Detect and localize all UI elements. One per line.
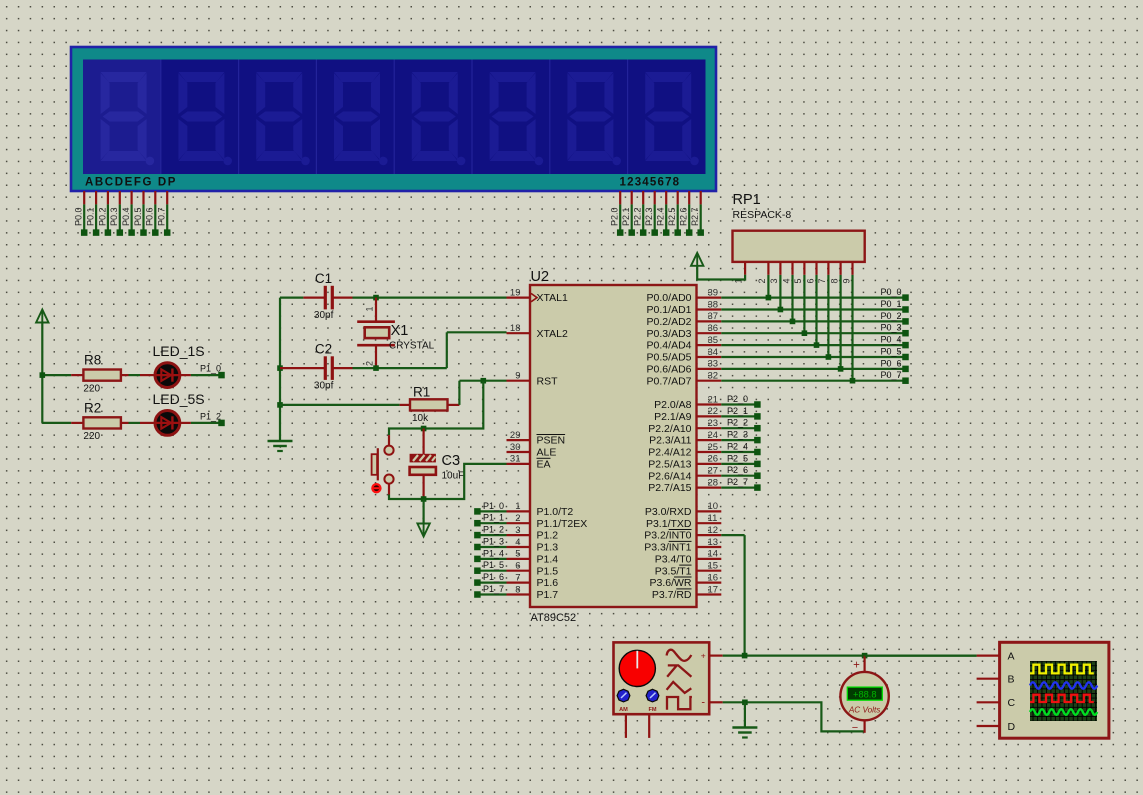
svg-text:P0.6: P0.6 <box>145 207 155 226</box>
svg-text:C3: C3 <box>442 453 461 469</box>
terminal P1_4 <box>474 548 506 562</box>
wire RP1 pin 2 to P0_0 <box>766 275 772 301</box>
wire RP1 pin 9 to P0_7 <box>850 275 856 384</box>
display pin wire P2.4 <box>656 191 670 236</box>
svg-text:P1_3: P1_3 <box>483 536 504 546</box>
svg-text:P2_5: P2_5 <box>727 453 748 463</box>
U2 XTAL1 clock input arrow <box>531 293 537 301</box>
svg-text:33: 33 <box>708 359 719 370</box>
svg-text:+: + <box>853 660 860 672</box>
wire LED_1S to terminal P1_0 <box>191 364 225 379</box>
junction XTAL1 node <box>373 295 379 301</box>
terminal P1_6 <box>474 572 506 586</box>
RP1 pin 7 stub <box>817 262 828 284</box>
svg-text:R1: R1 <box>413 384 430 399</box>
terminal P2_7 <box>721 477 760 491</box>
svg-text:C2: C2 <box>315 342 332 357</box>
svg-text:RST: RST <box>537 375 559 387</box>
svg-text:30pf: 30pf <box>314 381 334 392</box>
U2 pin 5 P1.4 <box>507 549 559 566</box>
RP1 pin 6 stub <box>805 262 816 284</box>
display pin wire P2.5 <box>667 191 681 236</box>
svg-text:35: 35 <box>708 335 719 346</box>
svg-text:7: 7 <box>515 572 520 583</box>
svg-text:6: 6 <box>805 278 815 283</box>
LED LED_1S <box>140 343 205 387</box>
svg-text:3: 3 <box>769 278 779 283</box>
8-digit 7-segment display module <box>71 47 716 191</box>
U2 pin 15 P3.5/T1 <box>655 561 722 578</box>
svg-text:19: 19 <box>510 287 521 298</box>
U2 pin 9 RST <box>507 371 559 388</box>
svg-text:220: 220 <box>83 383 100 394</box>
svg-text:P0_4: P0_4 <box>880 335 901 345</box>
svg-text:31: 31 <box>510 454 521 465</box>
svg-text:9: 9 <box>515 371 520 382</box>
svg-text:P1_6: P1_6 <box>483 572 504 582</box>
svg-text:P1.5: P1.5 <box>537 565 559 577</box>
svg-text:P1_0: P1_0 <box>200 364 221 374</box>
wire P0_0 net <box>721 287 908 301</box>
AC voltmeter instrument <box>840 656 888 734</box>
svg-text:P0_2: P0_2 <box>880 311 901 321</box>
U2 pin 26 P2.5/A13 <box>648 454 721 471</box>
svg-text:P0.4: P0.4 <box>121 207 131 226</box>
svg-text:14: 14 <box>708 549 719 560</box>
svg-text:10uF: 10uF <box>442 471 465 482</box>
wire voltmeter node to scope channel A <box>865 654 977 656</box>
wire LED power rail <box>42 323 71 423</box>
svg-text:9: 9 <box>841 278 851 283</box>
svg-text:P0_5: P0_5 <box>880 346 901 356</box>
wire button and C3 bottom to EA <box>389 464 507 499</box>
svg-text:P2_6: P2_6 <box>727 465 748 475</box>
wire RP1 pin 8 to P0_6 <box>838 275 844 372</box>
svg-text:P1_2: P1_2 <box>483 525 504 535</box>
svg-text:30: 30 <box>510 442 521 453</box>
svg-text:X1: X1 <box>391 323 409 339</box>
svg-text:P2.2/A10: P2.2/A10 <box>648 423 691 435</box>
generator AM knob <box>617 689 630 713</box>
svg-text:17: 17 <box>708 584 719 595</box>
junction C3 top <box>421 426 427 432</box>
svg-text:P2.4/A12: P2.4/A12 <box>648 447 691 459</box>
display pin wire P0.7 <box>157 191 171 236</box>
wire C2 to XTAL2 <box>353 332 507 368</box>
oscilloscope channel A pin <box>977 650 1015 662</box>
svg-text:4: 4 <box>515 537 520 548</box>
svg-text:P2_1: P2_1 <box>727 406 748 416</box>
svg-text:P2.5: P2.5 <box>667 207 677 226</box>
wire RP1 pin 5 to P0_3 <box>802 275 808 336</box>
generator output minus pin <box>701 697 722 709</box>
crystal X1 <box>357 298 434 369</box>
svg-text:AM: AM <box>619 707 628 713</box>
display pin wire P2.3 <box>644 191 658 236</box>
wire RP1 pin1 to power <box>697 266 745 280</box>
svg-text:R8: R8 <box>84 353 101 368</box>
svg-text:P0.6/AD6: P0.6/AD6 <box>647 364 692 376</box>
junction INT0 node <box>742 653 748 659</box>
svg-text:P1.3: P1.3 <box>537 542 559 554</box>
svg-text:11: 11 <box>708 513 718 524</box>
capacitor C3 10uF electrolytic <box>410 429 465 500</box>
U2 pin 12 P3.2/INT0 <box>644 525 721 542</box>
svg-text:29: 29 <box>510 430 521 441</box>
svg-text:RESPACK-8: RESPACK-8 <box>733 209 792 221</box>
svg-text:LED_5S: LED_5S <box>153 391 205 407</box>
U2 pin 10 P3.0/RXD <box>645 501 721 518</box>
svg-text:P3.2/INT0: P3.2/INT0 <box>644 530 691 542</box>
svg-text:13: 13 <box>708 537 719 548</box>
svg-text:A: A <box>1008 650 1015 662</box>
svg-text:10k: 10k <box>412 413 429 424</box>
U2 pin 39 P0.0/AD0 <box>647 287 722 304</box>
svg-text:XTAL2: XTAL2 <box>537 328 568 340</box>
display pin wire P0.4 <box>121 191 135 236</box>
svg-text:1: 1 <box>364 306 374 311</box>
wire to ground arrow <box>423 499 425 524</box>
capacitor C2 30pf <box>280 342 353 392</box>
terminal P2_6 <box>721 465 760 479</box>
RP1 pin 4 stub <box>781 262 792 284</box>
U2 pin 29 PSEN <box>507 430 566 447</box>
U2 pin 13 P3.3/INT1 <box>644 537 721 554</box>
power symbol VCC at RP1 <box>691 253 703 266</box>
svg-text:P0.4/AD4: P0.4/AD4 <box>647 340 692 352</box>
svg-text:P0.0: P0.0 <box>74 207 84 226</box>
wire P0_6 net <box>721 358 908 372</box>
svg-text:32: 32 <box>708 371 719 382</box>
svg-text:P2.7: P2.7 <box>690 207 700 226</box>
U2 pin 33 P0.6/AD6 <box>647 359 722 376</box>
display digit figures 8 with decimal points <box>101 72 155 165</box>
svg-text:P1_0: P1_0 <box>483 501 504 511</box>
svg-text:21: 21 <box>708 394 719 405</box>
display pin wire P2.2 <box>633 191 647 236</box>
svg-text:R2: R2 <box>84 400 101 415</box>
svg-text:1: 1 <box>515 501 520 512</box>
svg-text:P0_6: P0_6 <box>880 358 901 368</box>
U2 pin 27 P2.6/A14 <box>648 466 721 483</box>
terminal P1_5 <box>474 560 506 574</box>
display pin wire P0.2 <box>97 191 111 236</box>
svg-text:26: 26 <box>708 454 719 465</box>
U2 pin 30 ALE <box>507 442 557 459</box>
svg-text:P0.1/AD1: P0.1/AD1 <box>647 304 692 316</box>
svg-text:P0.3: P0.3 <box>109 207 119 226</box>
svg-text:−: − <box>852 722 858 734</box>
svg-text:P3.5/T1: P3.5/T1 <box>655 565 692 577</box>
signal generator instrument <box>614 642 710 714</box>
wire generator minus net <box>723 702 864 731</box>
svg-text:7: 7 <box>817 278 827 283</box>
svg-text:5: 5 <box>515 549 520 560</box>
svg-text:P1.4: P1.4 <box>537 554 559 566</box>
U2 pin 7 P1.6 <box>507 572 559 589</box>
svg-text:P1.0/T2: P1.0/T2 <box>537 506 574 518</box>
svg-text:P3.1/TXD: P3.1/TXD <box>646 518 692 530</box>
oscilloscope screen with waveforms <box>1030 661 1097 721</box>
svg-text:P2_4: P2_4 <box>727 441 748 451</box>
svg-text:P1_7: P1_7 <box>483 584 504 594</box>
oscilloscope channel C pin <box>977 697 1016 709</box>
display pin wire P2.1 <box>621 191 635 236</box>
svg-text:18: 18 <box>510 323 521 334</box>
svg-text:8: 8 <box>515 584 520 595</box>
wire C1 left to ground rail <box>280 298 303 441</box>
display pin wire P2.0 <box>610 191 624 236</box>
display pin wire P0.6 <box>145 191 159 236</box>
svg-text:B: B <box>1008 674 1015 686</box>
wire P3.2/INT0 to generator output <box>721 535 744 656</box>
svg-text:EA: EA <box>537 459 551 471</box>
op-amp U2 body AT89C52 microcontroller <box>530 269 697 624</box>
generator waveform icons <box>667 650 692 710</box>
resistor R2 220 <box>71 400 128 442</box>
junction C3 bottom <box>421 496 427 502</box>
junction crystal pin2 <box>373 365 379 371</box>
LED LED_5S <box>140 391 205 435</box>
svg-text:36: 36 <box>708 323 719 334</box>
svg-text:25: 25 <box>708 442 719 453</box>
terminal P1_7 <box>474 584 506 598</box>
svg-text:P0_3: P0_3 <box>880 323 901 333</box>
RP1 pin 5 stub <box>793 262 804 284</box>
svg-text:RP1: RP1 <box>733 192 761 208</box>
display pin wire P0.3 <box>109 191 123 236</box>
svg-text:P3.3/INT1: P3.3/INT1 <box>644 542 691 554</box>
svg-text:39: 39 <box>708 287 719 298</box>
wire P0_4 net <box>721 335 908 349</box>
oscilloscope instrument <box>1000 642 1109 738</box>
svg-text:220: 220 <box>83 431 100 442</box>
U2 pin 35 P0.4/AD4 <box>647 335 722 352</box>
svg-text:P2_3: P2_3 <box>727 430 748 440</box>
U2 pin 22 P2.1/A9 <box>654 406 721 423</box>
RP1 pin 1 stub <box>734 262 746 284</box>
svg-text:+88.8: +88.8 <box>853 689 877 699</box>
wire P0_1 net <box>721 299 908 313</box>
display pin wire P0.1 <box>86 191 100 236</box>
svg-text:4: 4 <box>781 278 791 283</box>
svg-text:P0_0: P0_0 <box>880 287 901 297</box>
junction R1 rail <box>277 402 283 408</box>
U2 pin 28 P2.7/A15 <box>648 477 721 494</box>
U2 pin 18 XTAL2 <box>507 323 568 340</box>
wire RP1 pin 6 to P0_4 <box>814 275 820 348</box>
wire to bottom ground <box>744 702 746 727</box>
svg-text:P1.7: P1.7 <box>537 589 559 601</box>
svg-text:23: 23 <box>708 418 719 429</box>
terminal P1_3 <box>474 536 506 550</box>
svg-text:P1.6: P1.6 <box>537 577 559 589</box>
terminal P2_5 <box>721 453 760 467</box>
svg-text:P0.3/AD3: P0.3/AD3 <box>647 328 692 340</box>
display pin wire P0.0 <box>74 191 88 236</box>
svg-text:8: 8 <box>829 278 839 283</box>
wire LED_5S to terminal P1_2 <box>191 412 225 427</box>
svg-text:P2_2: P2_2 <box>727 418 748 428</box>
terminal P2_1 <box>721 406 760 420</box>
svg-text:22: 22 <box>708 406 719 417</box>
U2 pin 2 P1.1/T2EX <box>507 513 588 530</box>
svg-text:AT89C52: AT89C52 <box>531 612 577 624</box>
junction C2 rail <box>277 365 283 371</box>
U2 pin 8 P1.7 <box>507 584 559 601</box>
RP1 pin 3 stub <box>769 262 780 284</box>
svg-text:P2.7/A15: P2.7/A15 <box>648 482 691 494</box>
svg-text:2: 2 <box>757 278 767 283</box>
ground symbol left rail <box>268 441 293 451</box>
wire P0_3 net <box>721 323 908 337</box>
ground arrow symbol below C3 <box>417 524 429 537</box>
capacitor C1 30pf <box>303 271 352 321</box>
svg-text:28: 28 <box>708 477 719 488</box>
oscilloscope channel D pin <box>977 721 1016 733</box>
display pin wire P2.7 <box>690 191 704 236</box>
svg-text:16: 16 <box>708 572 719 583</box>
svg-text:P1_2: P1_2 <box>200 412 221 422</box>
RP1 pin 8 stub <box>829 262 840 284</box>
ground symbol bottom <box>732 728 757 738</box>
wire C1 to XTAL1 <box>353 297 507 299</box>
svg-text:15: 15 <box>708 561 719 572</box>
svg-text:12345678: 12345678 <box>620 177 681 189</box>
svg-text:P0.2/AD2: P0.2/AD2 <box>647 316 692 328</box>
svg-text:30pf: 30pf <box>314 310 334 321</box>
svg-text:P2.5/A13: P2.5/A13 <box>648 459 691 471</box>
U2 pin 6 P1.5 <box>507 561 559 578</box>
U2 pin 25 P2.4/A12 <box>648 442 721 459</box>
svg-text:12: 12 <box>708 525 719 536</box>
terminal P2_0 <box>721 394 760 408</box>
svg-text:C: C <box>1008 697 1016 709</box>
svg-text:2: 2 <box>515 513 520 524</box>
svg-text:LED_1S: LED_1S <box>153 343 205 359</box>
U2 pin 14 P3.4/T0 <box>655 549 722 566</box>
wire RP1 pin 3 to P0_1 <box>778 275 784 313</box>
svg-text:+: + <box>701 651 706 661</box>
generator bottom stubs <box>626 714 649 738</box>
U2 pin 37 P0.2/AD2 <box>647 311 722 328</box>
svg-text:P2.6: P2.6 <box>679 207 689 226</box>
junction voltmeter plus node <box>862 653 868 659</box>
U2 pin 3 P1.2 <box>507 525 559 542</box>
svg-text:-: - <box>701 697 705 709</box>
svg-text:P0.5/AD5: P0.5/AD5 <box>647 352 692 364</box>
svg-text:P0.7/AD7: P0.7/AD7 <box>647 375 692 387</box>
svg-text:U2: U2 <box>531 269 550 285</box>
svg-text:P0_7: P0_7 <box>880 370 901 380</box>
wire RP1 pin 7 to P0_5 <box>826 275 832 360</box>
svg-text:XTAL1: XTAL1 <box>537 292 568 304</box>
svg-text:P0.0/AD0: P0.0/AD0 <box>647 292 692 304</box>
junction ground branch <box>742 700 748 706</box>
svg-text:P1.1/T2EX: P1.1/T2EX <box>537 518 588 530</box>
wire RP1 pin 4 to P0_2 <box>790 275 796 324</box>
svg-text:P0.7: P0.7 <box>157 207 167 226</box>
svg-text:P2_7: P2_7 <box>727 477 748 487</box>
svg-text:10: 10 <box>708 501 719 512</box>
svg-text:FM: FM <box>648 707 656 713</box>
push button switch <box>372 435 394 494</box>
U2 pin 34 P0.5/AD5 <box>647 347 722 364</box>
svg-text:34: 34 <box>708 347 719 358</box>
terminal P1_2 <box>474 525 506 539</box>
wire RST to button and C3 <box>389 381 483 435</box>
U2 pin 17 P3.7/RD <box>652 584 721 601</box>
svg-text:P2.4: P2.4 <box>656 207 666 226</box>
U2 pin 31 EA <box>507 454 551 471</box>
U2 pin 32 P0.7/AD7 <box>647 371 722 388</box>
svg-text:3: 3 <box>515 525 520 536</box>
svg-text:AC Volts: AC Volts <box>848 706 881 715</box>
svg-text:PSEN: PSEN <box>537 435 566 447</box>
svg-text:P0.1: P0.1 <box>86 207 96 226</box>
svg-text:P2.0: P2.0 <box>610 207 620 226</box>
svg-text:P3.7/RD: P3.7/RD <box>652 589 692 601</box>
svg-text:5: 5 <box>793 278 803 283</box>
svg-text:P1_1: P1_1 <box>483 513 504 523</box>
svg-text:ABCDEFG DP: ABCDEFG DP <box>85 177 177 189</box>
svg-text:P1.2: P1.2 <box>537 530 559 542</box>
svg-text:P2_0: P2_0 <box>727 394 748 404</box>
svg-text:CRYSTAL: CRYSTAL <box>389 341 435 352</box>
U2 pin 21 P2.0/A8 <box>654 394 721 411</box>
U2 pin 36 P0.3/AD3 <box>647 323 722 340</box>
svg-text:C1: C1 <box>315 271 332 286</box>
generator FM knob <box>646 689 659 713</box>
resistor pack RP1 RESPACK-8 <box>733 192 865 262</box>
terminal P1_0 <box>474 501 506 515</box>
svg-text:ALE: ALE <box>537 447 557 459</box>
svg-text:P3.6/WR: P3.6/WR <box>649 577 691 589</box>
wire P0_5 net <box>721 346 908 360</box>
svg-text:P3.4/T0: P3.4/T0 <box>655 554 692 566</box>
svg-text:P0_1: P0_1 <box>880 299 901 309</box>
svg-text:37: 37 <box>708 311 719 322</box>
U2 pin 24 P2.3/A11 <box>649 430 721 447</box>
svg-text:27: 27 <box>708 466 719 477</box>
svg-text:2: 2 <box>364 361 374 366</box>
wire R8 to LED_1S <box>129 374 141 376</box>
svg-text:D: D <box>1008 721 1016 733</box>
display pin wire P0.5 <box>133 191 147 236</box>
U2 pin 19 XTAL1 <box>507 287 568 304</box>
wire R1 to RST <box>459 381 506 405</box>
interactive red marker dot <box>371 483 381 493</box>
wire generator plus to scope A <box>723 654 977 656</box>
power symbol at LED rail <box>36 310 48 324</box>
wire P0_2 net <box>721 311 908 325</box>
svg-text:P0.5: P0.5 <box>133 207 143 226</box>
svg-text:6: 6 <box>515 561 520 572</box>
svg-text:P1_5: P1_5 <box>483 560 504 570</box>
wire R2 to LED_5S <box>129 422 141 424</box>
generator output plus pin <box>701 651 723 661</box>
junction RST node <box>481 378 487 384</box>
RP1 pin 9 stub <box>841 262 852 284</box>
terminal P1_1 <box>474 513 506 527</box>
oscilloscope channel B pin <box>977 674 1015 686</box>
svg-text:38: 38 <box>708 299 719 310</box>
junction LED rail <box>40 372 46 378</box>
U2 pin 4 P1.3 <box>507 537 559 554</box>
U2 pin 38 P0.1/AD1 <box>647 299 722 316</box>
U2 pin 16 P3.6/WR <box>649 572 721 589</box>
svg-text:P2.1: P2.1 <box>621 207 631 226</box>
